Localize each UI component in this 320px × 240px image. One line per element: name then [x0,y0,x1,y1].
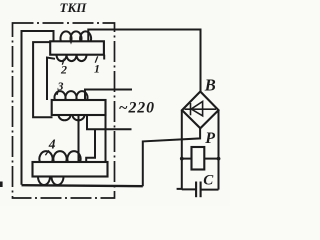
winding 4 top loops [39,151,80,162]
diode line inside bridge [185,108,217,110]
svg-text:С: С [203,172,214,188]
wire: bridge right vertex down to capacitor loop [218,110,220,190]
wire: bottom rail up to bridge bottom vertex [143,128,200,186]
wire: winding 2 bottom-left down to winding 3 top-left [47,58,55,101]
winding 3 bottom loops [59,115,85,120]
winding 3 core rectangle [52,100,106,115]
junction node left of P [180,157,184,161]
wire: AC supply stub 1 from winding 3 top [85,90,132,100]
diode triangle [191,102,202,116]
wire: jog from AC stub 2 down to winding 4 [86,129,95,162]
winding 1-2 core rectangle [50,41,104,54]
label tick for 3 [57,90,59,95]
svg-text:~220: ~220 [119,99,155,116]
wire: winding 3 right edge down to winding 4 [105,115,107,162]
wire: winding 3 bottom to winding 4 top [78,115,80,162]
svg-text:4: 4 [48,137,56,152]
dash-dot enclosure TKP [13,23,115,198]
label tick for 2 [62,59,64,65]
svg-text:Р: Р [204,130,215,147]
wire: top rail from winding 1 to bridge [88,30,200,92]
edge artifact [0,182,3,188]
relay P rectangle [192,147,205,170]
label tick for 1 [95,56,98,62]
capacitor C left plate [195,182,197,198]
svg-text:3: 3 [57,79,64,93]
svg-text:ТКП: ТКП [60,0,88,15]
svg-text:В: В [204,75,216,94]
wire: inner left loop from winding 1-2 top-left to winding 3 bottom-left [33,42,52,117]
wire: capacitor loop bottom left with overshoot [177,188,196,191]
winding 4 bottom loops [38,177,64,185]
wire: bottom rail [22,185,143,186]
winding 1-2 bottom loops [57,55,87,61]
svg-text:1: 1 [94,62,100,76]
winding 4 core rectangle [33,162,108,177]
capacitor C right plate [200,182,202,198]
winding 1 right lead hook [103,55,105,60]
wire: bridge left vertex down to capacitor loop [181,110,183,189]
winding 3 top loops [55,91,88,100]
wire: capacitor to right vertical [201,189,219,191]
wire: relay P to right side [204,158,218,160]
wire: AC supply stub 2 from winding 3 bottom [87,115,132,129]
wire: left leg from top rail down to bottom rail [22,31,54,185]
winding 1-2 top loops [61,31,92,41]
bridge rectifier B diamond [182,92,219,129]
wire: left side to relay P [182,158,192,160]
diode cathode bar [190,103,192,115]
svg-text:2: 2 [60,63,67,77]
label tick for 4 [45,150,49,155]
junction node right of P [217,157,221,161]
